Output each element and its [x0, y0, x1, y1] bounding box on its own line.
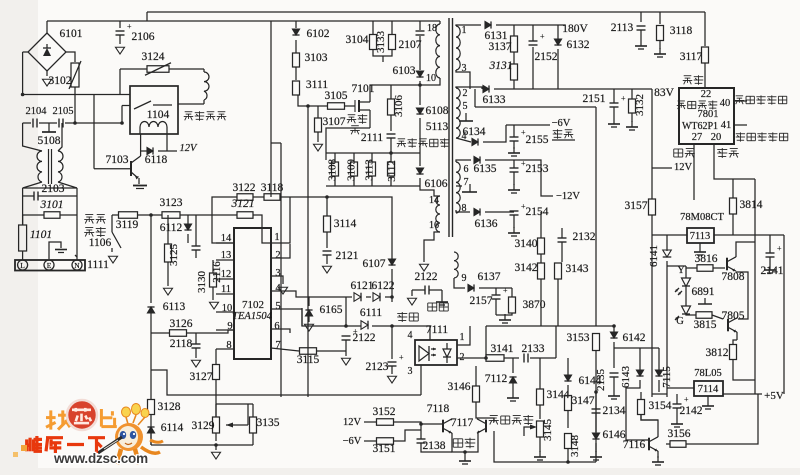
wire LED mid: [685, 286, 687, 306]
wire: [308, 316, 310, 322]
cold arrow 2118: [192, 360, 201, 367]
wire 2103 top: [23, 187, 77, 189]
zener 7112: [509, 377, 516, 383]
wire choke br: [58, 182, 77, 188]
label 1: [460, 332, 465, 343]
label 1104: [147, 109, 170, 121]
svg-text:40: 40: [720, 98, 731, 109]
wire: [391, 269, 393, 297]
svg-text:6103: 6103: [393, 65, 416, 77]
wire 3140-3142: [540, 254, 542, 263]
degaussing coil 1104 box: [130, 86, 178, 134]
svg-text:1104: 1104: [147, 109, 170, 121]
svg-text:2123: 2123: [366, 361, 389, 373]
wire: [391, 297, 393, 302]
wire rail y106: [475, 106, 596, 108]
wire 3118 right: [280, 196, 296, 198]
svg-text:6106: 6106: [425, 178, 448, 190]
wire: [561, 228, 563, 238]
bridge rectifier 6101: [28, 33, 66, 71]
resistor 3109: [351, 162, 358, 176]
wire: [513, 172, 515, 185]
wire 3127 down2: [215, 433, 217, 441]
wire x122 drop: [121, 106, 123, 124]
label 7801: [698, 109, 719, 120]
wire pin3: [456, 70, 470, 89]
wire: [613, 342, 615, 368]
wire 7808 e: [736, 272, 748, 319]
label 6102: [307, 28, 330, 40]
capacitor 2121: [323, 251, 332, 255]
label 3141: [491, 343, 514, 355]
capacitor 2154: [510, 202, 527, 215]
label 6121: [351, 280, 374, 292]
label 6103: [393, 65, 416, 77]
label 3109: [346, 159, 358, 182]
wire bus hot-return: [151, 370, 421, 395]
svg-text:1101: 1101: [30, 229, 52, 241]
label 7113: [690, 231, 711, 242]
label smps-transformer: [397, 138, 450, 147]
wire grid top: [326, 152, 420, 154]
wire 2134 t: [595, 392, 597, 409]
label 7117: [451, 417, 474, 429]
wire: [512, 358, 514, 373]
wire: [495, 299, 497, 315]
cold arrow 6165: [305, 324, 314, 331]
wire top rail: [47, 20, 440, 22]
wire x652 down a: [651, 168, 653, 199]
pin 8 7102: [226, 340, 231, 351]
svg-text:3133: 3133: [375, 31, 387, 54]
label 1101: [30, 229, 52, 241]
wire: [513, 160, 515, 168]
svg-text:3: 3: [275, 268, 280, 279]
wire: [532, 25, 534, 41]
junction emitters: [463, 450, 467, 454]
ground 2154: [508, 227, 520, 236]
svg-text:6137: 6137: [478, 271, 501, 283]
wire 6165 t: [308, 297, 309, 306]
label 3142: [515, 262, 538, 274]
wire rail y326 ext: [486, 325, 556, 327]
svg-text:3121: 3121: [231, 198, 255, 210]
label switch-tube: [347, 114, 368, 124]
wire pin40: [734, 100, 747, 102]
wire 3143 down: [557, 279, 559, 326]
wire 2138 bot: [421, 443, 452, 452]
svg-text:2152: 2152: [535, 51, 558, 63]
wire 12V rail: [652, 167, 672, 169]
label 6134: [463, 126, 486, 138]
wire: [364, 440, 376, 442]
label 6142: [623, 332, 646, 344]
wire 2118 d: [195, 348, 197, 358]
diode 6118 relay: [147, 147, 153, 154]
svg-text:2134: 2134: [603, 405, 626, 417]
wire: [195, 215, 197, 246]
svg-text:6112: 6112: [160, 222, 183, 234]
wire: [60, 214, 77, 216]
pot wiper arrow 3129: [226, 423, 248, 428]
diode 6121: [354, 293, 361, 302]
ground 7116: [652, 456, 664, 465]
label 6146: [603, 429, 626, 441]
wire: [364, 421, 376, 423]
wire: [676, 394, 678, 404]
svg-text:−12V: −12V: [556, 191, 580, 202]
resistor 3111: [293, 81, 300, 95]
label 3144: [547, 389, 570, 401]
wire: [215, 404, 217, 417]
wire drain: [370, 85, 420, 102]
svg-text:3126: 3126: [170, 318, 193, 330]
label 3816: [695, 253, 718, 265]
svg-text:Y: Y: [677, 265, 685, 276]
svg-text:11: 11: [221, 284, 231, 295]
wire 3146 bot: [475, 402, 477, 415]
wire pin5: [271, 309, 302, 326]
label 2103: [42, 183, 65, 195]
wire to 2106: [119, 21, 121, 28]
wire 12V: [158, 150, 177, 152]
wire 7113 out: [714, 234, 772, 236]
LED Y: [675, 278, 691, 295]
resistor 3122: [237, 194, 253, 201]
ground 2135: [608, 390, 620, 399]
cold arrow 3130: [210, 302, 219, 309]
resistor 3156: [670, 441, 686, 448]
transistor 7808: [727, 257, 736, 272]
wire 3112 t: [390, 153, 392, 162]
watermark find-chip text: [46, 409, 117, 430]
label 7103: [106, 154, 129, 166]
capacitor 2103: [34, 192, 38, 201]
label 8: [462, 203, 467, 214]
label 7101: [352, 83, 375, 95]
diode 6107: [388, 259, 395, 265]
zener 6102: [292, 29, 299, 35]
wire to 3119: [112, 214, 118, 216]
label 6143: [620, 366, 632, 389]
wire 6134 out: [483, 125, 506, 142]
label 3143: [566, 263, 589, 275]
wire: [382, 56, 384, 62]
label 2151: [583, 93, 606, 105]
resistor 3870: [509, 297, 516, 313]
wire x667 b: [666, 261, 668, 397]
svg-text:E: E: [47, 261, 52, 270]
resistor 3117: [702, 47, 709, 63]
label 7111: [426, 324, 448, 336]
label 3118: [670, 25, 693, 37]
svg-text:2118: 2118: [170, 338, 193, 350]
zener 6112: [184, 224, 191, 230]
MOSFET 7101 switch: [345, 100, 370, 112]
wire 6112 down: [187, 234, 189, 243]
wire: [23, 195, 34, 197]
SCR 6143: [636, 370, 643, 376]
svg-text:22: 22: [701, 89, 712, 100]
wire: [595, 443, 597, 452]
wire: [699, 243, 701, 246]
svg-text:−6V: −6V: [343, 436, 362, 447]
svg-text:7112: 7112: [485, 373, 508, 385]
label 3132: [634, 94, 646, 116]
label 2122: [353, 332, 376, 344]
wire: [769, 235, 771, 253]
label 3157: [625, 200, 648, 212]
label 2132: [573, 231, 596, 243]
svg-text:3124: 3124: [142, 51, 165, 63]
wire vert x308: [307, 106, 309, 397]
capacitor 2138: [417, 439, 426, 443]
fuse 1101: [19, 215, 27, 260]
wire: [713, 267, 725, 269]
svg-text:2104: 2104: [26, 106, 48, 117]
resistor 3123: [162, 212, 180, 219]
wire 3812 down: [733, 360, 755, 380]
label 10: [426, 73, 436, 84]
wire coil lead R: [166, 134, 168, 151]
svg-text:12V: 12V: [180, 143, 199, 154]
wire grid bottom: [326, 185, 420, 187]
resistor 3142: [538, 263, 545, 279]
wire 3125 down: [167, 262, 169, 286]
svg-text:G: G: [676, 316, 684, 327]
label 3122: [233, 182, 256, 194]
capacitor 2132: [558, 238, 567, 242]
wire rail corner down: [704, 12, 706, 46]
capacitor 2155: [510, 128, 527, 141]
wire: [326, 255, 328, 264]
wire LC: [23, 122, 31, 124]
label 7116: [623, 439, 646, 451]
wire rail link: [146, 12, 148, 21]
label −6V: [552, 118, 571, 129]
wire: [712, 315, 723, 319]
svg-text:3109: 3109: [346, 159, 358, 182]
junction 2122a: [344, 324, 348, 328]
label 3103: [305, 52, 328, 64]
wire switch: [111, 215, 113, 232]
wire: [317, 132, 319, 142]
wire: [513, 80, 515, 89]
label 3812: [706, 347, 729, 359]
wire: [769, 257, 771, 264]
wire pin6: [456, 160, 471, 162]
label 6137: [478, 271, 501, 283]
wire main left vert: [150, 215, 152, 303]
label 2122: [415, 271, 438, 283]
pin 3 7102: [275, 268, 280, 279]
svg-text:12V: 12V: [674, 162, 693, 173]
wire: [561, 242, 563, 262]
svg-text:6891: 6891: [692, 286, 715, 298]
wire: [412, 289, 425, 291]
wire: [512, 383, 514, 392]
wire to pin14: [212, 212, 234, 243]
wire to 3102: [66, 52, 75, 62]
wire pot top: [216, 403, 253, 405]
svg-text:3815: 3815: [694, 319, 717, 331]
wire 7113 in: [652, 234, 687, 236]
wire: [596, 325, 614, 327]
wire 3118 to pin1: [271, 197, 290, 243]
svg-text:3145: 3145: [542, 419, 554, 442]
diode 6122: [373, 293, 380, 302]
wire pin stub y243: [216, 242, 234, 244]
svg-text:6102: 6102: [307, 28, 330, 40]
wire: [513, 125, 515, 137]
wire pin4: [456, 138, 471, 142]
degaussing loop coil: [204, 69, 209, 104]
wire 7115 t: [658, 348, 660, 370]
cold arrow 3107: [314, 144, 323, 151]
wire: [385, 296, 392, 298]
resistor 3812: [730, 345, 737, 360]
resistor 3121: [237, 212, 253, 219]
resistor 3131: [511, 64, 518, 80]
wire: [141, 150, 147, 152]
wire to pin10: [420, 84, 434, 86]
wire: [325, 153, 327, 160]
SCR 7115: [655, 370, 662, 376]
wire 3111 down: [298, 95, 328, 106]
svg-text:3112: 3112: [386, 160, 398, 182]
svg-text:3870: 3870: [523, 299, 546, 311]
wire: [613, 107, 615, 118]
wire Y top: [685, 266, 687, 278]
wire 3125 top: [167, 215, 169, 244]
svg-text:3130: 3130: [196, 271, 208, 294]
wire -12V: [514, 160, 553, 196]
wire 6132 down: [557, 49, 559, 89]
svg-text:2138: 2138: [423, 440, 446, 452]
wire: [631, 89, 633, 99]
wire: [38, 195, 77, 197]
wire: [419, 118, 421, 166]
wire: [667, 265, 686, 267]
zener 6106: [416, 168, 423, 174]
transistor 7116: [649, 437, 658, 452]
junction 3148: [566, 460, 570, 464]
svg-text:18: 18: [427, 23, 437, 34]
svg-text:6133: 6133: [483, 94, 506, 106]
label 3106: [393, 95, 405, 118]
wire bridge bottom: [46, 71, 48, 76]
wire x755: [754, 179, 756, 394]
ground 7112: [507, 392, 519, 401]
svg-text:7118: 7118: [427, 403, 450, 415]
label 78L05: [694, 368, 721, 379]
svg-text:+: +: [503, 286, 508, 295]
label Y: [677, 265, 685, 276]
pin 4 7102: [275, 283, 281, 294]
wire to 3124: [120, 68, 147, 70]
resistor 3108: [332, 162, 339, 176]
wire: [295, 67, 297, 80]
resistor 3107: [315, 118, 322, 132]
wire 3102 to node: [74, 87, 76, 123]
svg-text:3135: 3135: [257, 417, 280, 429]
wire coil return: [178, 103, 204, 105]
svg-text:3154: 3154: [649, 400, 672, 412]
regulator 7114 box: [694, 381, 723, 396]
wire x667 a: [666, 235, 668, 251]
wire 6112: [187, 215, 189, 224]
svg-text:6132: 6132: [567, 39, 590, 51]
svg-text:20: 20: [711, 132, 722, 143]
wire: [495, 288, 497, 295]
pin 12 7102: [221, 269, 232, 280]
svg-text:+: +: [399, 353, 404, 362]
svg-text:2111: 2111: [361, 132, 383, 144]
label 6133: [483, 94, 506, 106]
wire base 7118: [421, 423, 443, 425]
wire choke bl: [23, 182, 42, 188]
resistor 3103: [293, 53, 300, 67]
svg-text:2153: 2153: [526, 163, 549, 175]
label 1: [462, 25, 467, 36]
label 2133: [522, 343, 545, 355]
svg-text:2122: 2122: [415, 271, 438, 283]
wire: [504, 357, 519, 359]
capacitor 2135: [610, 373, 619, 377]
label 3104: [346, 34, 369, 46]
wire 7114 in: [667, 387, 694, 389]
svg-text:3108: 3108: [327, 159, 339, 182]
wire: [613, 377, 615, 390]
svg-text:3: 3: [408, 366, 413, 377]
wire: [557, 25, 559, 39]
wire 3112 b: [390, 176, 392, 186]
ground tick pin7: [462, 184, 477, 192]
wire pin stub y279: [216, 278, 234, 280]
zener 6108: [416, 108, 423, 114]
label 40: [720, 98, 731, 109]
wire 3126 r: [187, 330, 234, 333]
label 3131: [489, 60, 513, 72]
label 3133: [375, 31, 387, 54]
label 2118: [170, 338, 193, 350]
label 6122: [372, 280, 395, 292]
resistor 3126: [170, 330, 187, 337]
svg-text:3105: 3105: [325, 90, 348, 102]
label 9: [462, 273, 467, 284]
wire: [539, 405, 541, 419]
label 3147: [572, 395, 595, 407]
pin 7 7102: [275, 340, 280, 351]
label degauss: [683, 75, 704, 85]
svg-text:3816: 3816: [695, 253, 718, 265]
wire 83V down: [651, 89, 653, 168]
wire: [641, 414, 658, 420]
wire pin1: [456, 25, 481, 26]
ground 7113: [694, 246, 706, 255]
wire: [391, 366, 393, 374]
wire pin3: [271, 276, 283, 284]
label 2138: [423, 440, 446, 452]
wire: [456, 185, 462, 187]
wire 2133 right: [530, 357, 556, 359]
svg-text:3148: 3148: [569, 435, 581, 458]
optocoupler 7111 box: [415, 340, 457, 365]
resistor 3147: [565, 396, 572, 411]
watermark mascot: [98, 404, 163, 465]
pin 1 7102: [274, 232, 279, 243]
svg-text:N: N: [74, 261, 80, 270]
